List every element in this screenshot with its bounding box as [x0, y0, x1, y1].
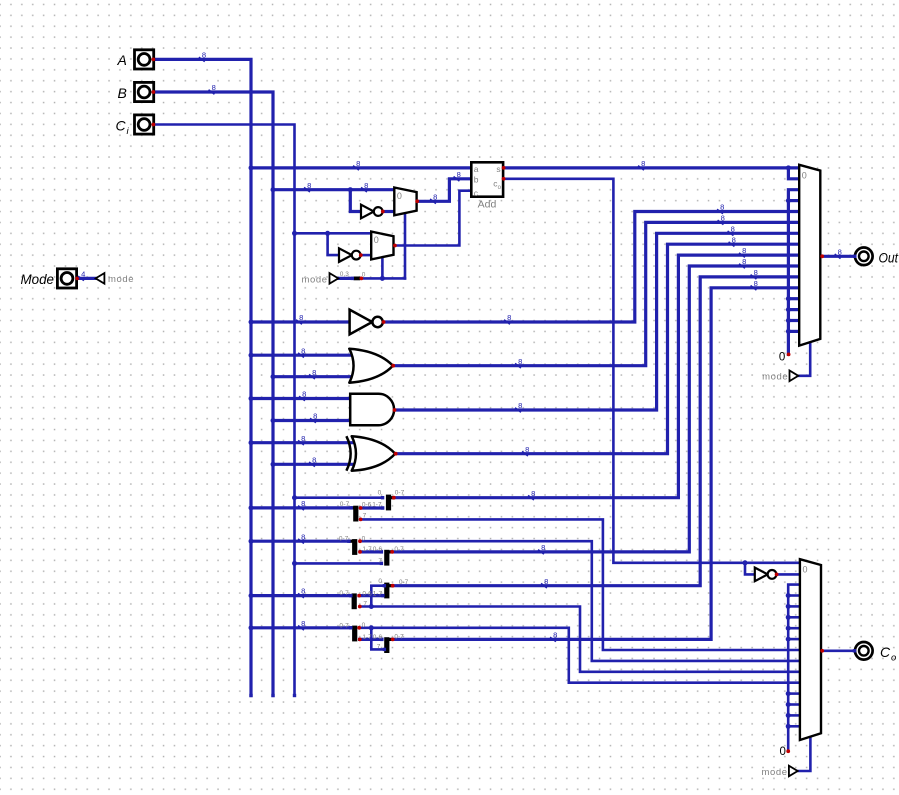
wire MO select to mode tunnel — [799, 342, 811, 375]
splitter S5 (rotate-left combine) — [384, 583, 389, 599]
svg-text:8: 8 — [307, 181, 311, 190]
junction A bus S1 — [249, 505, 254, 510]
stub MO input 13 — [788, 308, 799, 311]
svg-text:0-6: 0-6 — [362, 591, 372, 598]
wire NOT3 output to MO input 4 — [384, 212, 800, 323]
junction Ci bus S4 — [292, 561, 297, 566]
junction A bus XOR1 — [249, 440, 254, 445]
wire mux M1 output to adder input b — [417, 179, 471, 202]
wire branch row17 down to NOT1 — [350, 190, 361, 212]
port MO output — [820, 254, 824, 258]
mux M1 (B / not B) — [394, 188, 416, 216]
wire end B bus bottom — [271, 694, 274, 697]
port S6 leg7 — [358, 605, 362, 609]
svg-text:8: 8 — [553, 631, 557, 640]
junction B bus XOR2 — [271, 462, 276, 467]
svg-text:0: 0 — [374, 235, 379, 245]
wire S7 bits1-7 to S8 bits0-6 — [360, 638, 382, 641]
svg-text:0-7: 0-7 — [399, 579, 409, 586]
svg-text:0: 0 — [362, 622, 366, 629]
wire end S2 leg17 — [381, 506, 384, 509]
splitter S8 (rotate-right combine) — [384, 637, 389, 653]
stub MC input 14 — [788, 714, 800, 717]
wire mux M2 select — [381, 257, 384, 278]
port S4 trunk — [390, 550, 394, 554]
tunnel mode at splitter SP0 — [330, 273, 339, 284]
svg-text:4: 4 — [81, 270, 85, 279]
wire A to OR input 1 — [251, 354, 353, 357]
wire S1 bit7 to big mux MC input 8 — [361, 519, 800, 650]
big mux MC (carry select) — [800, 559, 821, 740]
port NOT1 out — [381, 210, 385, 214]
svg-text:1-7: 1-7 — [362, 634, 372, 641]
svg-text:0: 0 — [378, 489, 382, 496]
splitter S4 (shift-right combine) — [384, 550, 389, 566]
svg-text:0: 0 — [397, 191, 402, 201]
wire end S6 trunk — [349, 594, 352, 597]
svg-text:1-7: 1-7 — [373, 591, 383, 598]
wire end SP0 left — [351, 277, 354, 280]
wire Ci to mux M2 input 1 (row21) — [295, 232, 372, 235]
width label M1 out — [430, 199, 436, 204]
svg-text:8: 8 — [838, 247, 842, 256]
wire rotate-right bit0 down to S8 bit7 leg — [371, 628, 384, 650]
stub MC input 13 — [788, 703, 800, 706]
junction MC chain input14 — [786, 713, 791, 718]
port S3 leg17 — [358, 550, 362, 554]
svg-text:8: 8 — [457, 170, 461, 179]
width label OR in1 — [298, 353, 304, 358]
width label row15 — [353, 166, 359, 171]
svg-text:0: 0 — [779, 351, 785, 363]
svg-text:8: 8 — [541, 543, 545, 552]
port splitter SP0 — [360, 277, 364, 281]
wire MC output to Co pin — [822, 649, 854, 652]
width label OR out — [515, 363, 521, 368]
svg-text:0-7: 0-7 — [395, 490, 405, 497]
wire OR output to MO input 5 — [393, 222, 800, 365]
svg-text:7: 7 — [363, 601, 367, 608]
wire constant zero chain to MC inputs 2-7 and 12-15 — [788, 585, 800, 752]
width label row17 a — [304, 187, 310, 192]
wire Ci to splitter S4 bit7 leg — [295, 562, 382, 565]
wire Ci to splitter S2 bit0 leg — [295, 496, 383, 499]
wire A to splitter S6 trunk (rotate-left) — [251, 594, 351, 597]
svg-text:8: 8 — [641, 159, 645, 168]
wire MC select to mode tunnel — [798, 738, 810, 771]
port MC output — [820, 649, 824, 653]
svg-text:8: 8 — [518, 357, 522, 366]
port NOT4 out — [775, 573, 779, 577]
wire XOR output to MO input 7 — [395, 244, 799, 454]
junction MC chain input3 — [786, 593, 791, 598]
width label adder s — [638, 166, 644, 171]
junction mode wire M2 select — [380, 276, 385, 281]
width label NOT3 out — [504, 320, 510, 325]
svg-text:8: 8 — [364, 181, 368, 190]
width label XOR in1 — [298, 440, 304, 445]
wire mode bit0 to mux selects — [361, 277, 405, 280]
wire end Co pin — [853, 649, 856, 652]
wire Ci from pin to bus and Ci bus down — [153, 125, 294, 696]
svg-text:0-7: 0-7 — [339, 535, 349, 542]
svg-text:8: 8 — [301, 499, 305, 508]
port S5 trunk — [391, 584, 395, 588]
stub MO input 14 — [788, 319, 799, 322]
svg-text:B: B — [118, 85, 127, 101]
width label Out wire — [835, 254, 841, 259]
width label NOT3 in — [296, 320, 302, 325]
width label Mode — [78, 276, 84, 281]
wire A to adder input a (row15) — [251, 166, 471, 169]
wire S7 bit0 to big mux MC input 11 — [359, 628, 800, 683]
wire Mode pin to tunnel — [77, 277, 95, 280]
splitter S6 (A rotate-left source) — [352, 593, 357, 609]
splitter S3 (A shift-right source) — [352, 539, 357, 555]
width label MO in10 — [751, 275, 757, 280]
wire S8 combined output to MO input 11 — [392, 288, 799, 640]
width label S8 out — [550, 637, 556, 642]
svg-text:8: 8 — [212, 83, 216, 92]
svg-text:8: 8 — [754, 279, 758, 288]
mux M2 (Ci / not Ci) — [371, 232, 393, 260]
junction MC chain input13 — [786, 702, 791, 707]
wire S1 bits0-6 to S2 bits1-7 — [361, 506, 383, 509]
svg-text:8: 8 — [525, 445, 529, 454]
svg-text:0-7: 0-7 — [340, 501, 350, 508]
svg-text:0,3: 0,3 — [340, 271, 349, 278]
svg-text:0-7: 0-7 — [394, 546, 404, 553]
XOR gate U7 — [352, 436, 396, 471]
svg-text:0: 0 — [802, 170, 807, 180]
width label AND out — [515, 408, 521, 413]
svg-text:0-6: 0-6 — [373, 634, 383, 641]
width label MO in5 — [718, 220, 724, 225]
svg-text:8: 8 — [356, 159, 360, 168]
svg-text:Mode: Mode — [21, 271, 55, 287]
svg-text:8: 8 — [313, 412, 317, 421]
svg-text:s: s — [496, 164, 500, 174]
svg-text:8: 8 — [299, 313, 303, 322]
NOT gate U1 (B inverter) — [361, 205, 374, 219]
junction Ci bus S2 — [292, 495, 297, 500]
port S7 leg0 — [357, 626, 361, 630]
port constant0 MO — [787, 353, 791, 357]
stub MC input 6 — [788, 627, 800, 630]
svg-text:8: 8 — [302, 390, 306, 399]
width label wire A — [199, 57, 205, 62]
input pin B — [135, 82, 154, 101]
tunnel mode at MO select — [790, 371, 799, 382]
stub MC input 12 — [788, 692, 800, 695]
junction rotate-right bit0 — [369, 625, 374, 630]
wire B to AND input 2 — [273, 419, 351, 422]
width label XOR in2 — [309, 462, 315, 467]
width label AND in1 — [299, 396, 305, 401]
junction A bus S7 — [249, 625, 254, 630]
width label S6 in — [298, 593, 304, 598]
junction MO chain input14 — [786, 318, 791, 323]
svg-text:0-7: 0-7 — [339, 590, 349, 597]
junction co wire NOT4 tap — [743, 560, 748, 565]
wire mux M1 select — [404, 213, 407, 278]
port pin B — [152, 90, 156, 94]
junction MC chain input5 — [786, 615, 791, 620]
stub MC input 7 — [788, 638, 800, 641]
wire end S8 leg7 — [383, 648, 386, 651]
junction MO chain input15 — [786, 329, 791, 334]
wire adder s output to big mux MO input 0 — [503, 166, 799, 169]
port S8 trunk — [391, 638, 395, 642]
wire end Out pin — [853, 255, 856, 258]
svg-text:8: 8 — [742, 246, 746, 255]
junction A bus S3 — [249, 539, 254, 544]
svg-text:mode: mode — [762, 372, 788, 383]
wire B from pin to bus and B bus down — [153, 92, 273, 696]
svg-text:8: 8 — [720, 203, 724, 212]
wire A to XOR input 1 — [251, 441, 355, 444]
junction MC chain input7 — [786, 637, 791, 642]
svg-text:0-6: 0-6 — [362, 502, 372, 509]
port S2 trunk — [392, 496, 396, 500]
NOT gate U4 (8-bit inverter) — [350, 310, 373, 335]
svg-text:0-6: 0-6 — [373, 546, 383, 553]
NOT gate U2 (Ci inverter) — [339, 248, 352, 262]
junction MO chain input13 — [786, 307, 791, 312]
svg-text:a: a — [474, 164, 479, 174]
wire end S8 leg06 — [380, 638, 383, 641]
port S7 leg17 — [358, 638, 362, 642]
junction MC chain input12 — [786, 691, 791, 696]
port S1 leg7 — [359, 518, 363, 522]
width label MO in9 — [739, 264, 745, 269]
wire end S4 leg06 — [380, 550, 383, 553]
input pin A — [135, 50, 154, 69]
wire end S5 leg17 — [381, 594, 384, 597]
stub MC input 5 — [788, 616, 800, 619]
svg-text:1-7: 1-7 — [372, 502, 382, 509]
svg-text:C: C — [880, 644, 891, 660]
big mux MO (result select) — [799, 165, 820, 346]
port adder co — [502, 177, 506, 181]
width label S4 out — [538, 550, 544, 555]
wire mode tunnel to splitter SP0 — [339, 277, 353, 280]
svg-text:1-7: 1-7 — [362, 546, 372, 553]
wire end S2 leg0 — [381, 496, 384, 499]
svg-text:0: 0 — [378, 578, 382, 585]
junction A bus AND1 — [249, 396, 254, 401]
junction Ci bus row21 — [292, 231, 297, 236]
junction MC chain input15 — [786, 724, 791, 729]
port mux M1 out — [415, 199, 419, 203]
width label S2 out — [528, 495, 534, 500]
width label MO in11 — [751, 286, 757, 291]
port constant0 MC — [786, 749, 790, 753]
wire end S1 trunk — [350, 506, 353, 509]
wire end S4 leg7 — [380, 562, 383, 565]
svg-text:Out: Out — [879, 249, 899, 265]
port AND out — [393, 408, 397, 412]
wire S6 bits0-6 to S5 bits1-7 — [359, 594, 383, 597]
wire S5 combined output to MO input 10 — [392, 277, 799, 586]
stub MC input 4 — [788, 605, 800, 608]
port adder s — [502, 166, 506, 170]
svg-text:C: C — [116, 117, 127, 133]
svg-text:b: b — [474, 175, 479, 185]
wire NOT4 output to big mux MC input 1 — [778, 573, 800, 576]
wire A to splitter S1 trunk (shift-left) — [251, 506, 351, 509]
width label OR in2 — [309, 374, 315, 379]
svg-text:8: 8 — [433, 192, 437, 201]
width label MO in8 — [739, 253, 745, 258]
svg-text:8: 8 — [518, 401, 522, 410]
tunnel mode at MC select — [789, 766, 798, 777]
width label adder b — [454, 177, 460, 182]
output pin Out — [855, 247, 873, 265]
port pin A — [152, 58, 156, 62]
junction A bus OR1 — [249, 353, 254, 358]
svg-text:8: 8 — [732, 235, 736, 244]
wire end S3 trunk — [347, 540, 350, 543]
wire S6 bit7 to big mux MC input 10 — [360, 607, 800, 672]
width label row17 b — [361, 187, 367, 192]
svg-text:0-7: 0-7 — [394, 633, 404, 640]
output pin Co — [855, 642, 873, 660]
OR gate U5 — [349, 349, 393, 383]
wire end S7 trunk — [349, 626, 352, 629]
width label S7 in — [298, 626, 304, 631]
adder U3 Add — [471, 162, 503, 196]
width label MO in7 — [729, 242, 735, 247]
svg-text:8: 8 — [754, 268, 758, 277]
stub MO input 3 — [788, 199, 799, 202]
wire A from pin to bus and A bus down — [153, 59, 251, 695]
junction MC chain input4 — [786, 604, 791, 609]
width label S3 in — [298, 539, 304, 544]
wire S4 combined output to MO input 9 — [392, 266, 800, 552]
svg-text:7: 7 — [378, 557, 382, 564]
port S3 leg0 — [358, 539, 362, 543]
tunnel mode near Mode pin — [96, 273, 105, 284]
port pin Ci — [152, 123, 156, 127]
port OR out — [391, 364, 395, 368]
stub MO input 12 — [788, 297, 799, 300]
junction A bus S6 — [249, 593, 254, 598]
stub MO input 15 — [788, 330, 799, 333]
svg-text:8: 8 — [301, 434, 305, 443]
svg-text:8: 8 — [312, 455, 316, 464]
width label MO in4 — [717, 209, 723, 214]
wire B to OR input 2 — [273, 375, 353, 378]
svg-text:0: 0 — [803, 565, 808, 575]
svg-text:8: 8 — [531, 489, 535, 498]
svg-text:7: 7 — [363, 513, 367, 520]
NOT gate U8 (co inverter) — [755, 568, 768, 582]
splitter S7 (A rotate-right source) — [352, 626, 357, 642]
wire branch co to NOT4 — [745, 563, 755, 575]
junction rotate-left bit7 — [369, 604, 374, 609]
port NOT3 out — [382, 320, 386, 324]
wire branch row21 down to NOT2 — [328, 233, 339, 255]
svg-text:8: 8 — [544, 577, 548, 586]
svg-text:8: 8 — [202, 51, 206, 60]
width label XOR out — [522, 451, 528, 456]
svg-text:8: 8 — [721, 214, 725, 223]
splitter SP0 mode bit0 — [354, 277, 361, 281]
junction B bus AND2 — [271, 418, 276, 423]
wire AND output to MO input 6 — [394, 233, 799, 410]
svg-text:0: 0 — [362, 535, 366, 542]
junction A bus NOT3 — [249, 320, 254, 325]
wire mux M2 output to adder input c — [395, 191, 471, 246]
wire rotate-left bit7 up to S5 bit0 leg — [371, 586, 384, 607]
svg-text:8: 8 — [301, 532, 305, 541]
junction row17 NOT1 tap — [348, 187, 353, 192]
svg-text:o: o — [891, 652, 896, 663]
wire constant zero chain to MO inputs 2-3 and 12-15 — [788, 190, 799, 355]
wire A to AND input 1 — [251, 397, 351, 400]
svg-text:0-7: 0-7 — [339, 622, 349, 629]
svg-text:mode: mode — [762, 767, 788, 778]
AND gate U6 — [350, 394, 394, 426]
wire adder co output down to big mux MC input 0 — [503, 179, 800, 563]
svg-text:7: 7 — [377, 643, 381, 650]
junction B bus row17 — [271, 187, 276, 192]
svg-text:Add: Add — [478, 199, 497, 211]
width label MO in6 — [728, 231, 734, 236]
junction MO chain input12 — [786, 296, 791, 301]
width label wire B — [209, 90, 215, 95]
svg-text:8: 8 — [301, 619, 305, 628]
port pin Mode — [75, 277, 79, 281]
junction B bus OR2 — [271, 374, 276, 379]
wire end S5 leg0 — [383, 584, 386, 587]
junction A bus row15 — [249, 165, 254, 170]
wire S3 bit0 to big mux MC input 9 — [360, 541, 800, 661]
input pin Mode — [57, 269, 76, 288]
port mux M2 out — [393, 244, 397, 248]
wire MO output to Out pin — [822, 255, 855, 258]
wire S2 combined output to MO input 8 — [394, 255, 800, 498]
port S6 leg06 — [357, 594, 361, 598]
wire end Ci bus bottom — [293, 694, 296, 697]
wire A to splitter S3 trunk (shift-right) — [251, 540, 349, 543]
svg-text:c: c — [474, 188, 479, 198]
wire B to XOR input 2 — [273, 463, 355, 466]
wire NOT1 output to mux M1 input 2 — [383, 210, 394, 213]
svg-text:8: 8 — [507, 313, 511, 322]
stub MC input 3 — [788, 594, 800, 597]
port XOR out — [394, 452, 398, 456]
svg-text:mode: mode — [108, 274, 134, 285]
wire end A bus bottom — [249, 694, 252, 697]
port S1 leg06 — [359, 506, 363, 510]
wire B to mux M1 input 1 (row17) — [273, 188, 394, 191]
width label AND in2 — [310, 418, 316, 423]
junction row21 NOT2 tap — [325, 231, 330, 236]
svg-text:8: 8 — [731, 224, 735, 233]
width label S1 in — [298, 506, 304, 511]
wire A to NOT3 input — [251, 320, 351, 323]
junction MO chain input3 — [786, 198, 791, 203]
junction adder s / MO chain — [786, 165, 791, 170]
port NOT2 out — [359, 253, 363, 257]
wire A to splitter S7 trunk (rotate-right) — [251, 626, 351, 629]
wire S3 bits1-7 to S4 bits0-6 — [360, 550, 381, 553]
svg-text:8: 8 — [742, 257, 746, 266]
splitter S2 (shift-left combine) — [386, 495, 391, 511]
input pin Ci — [135, 115, 154, 134]
